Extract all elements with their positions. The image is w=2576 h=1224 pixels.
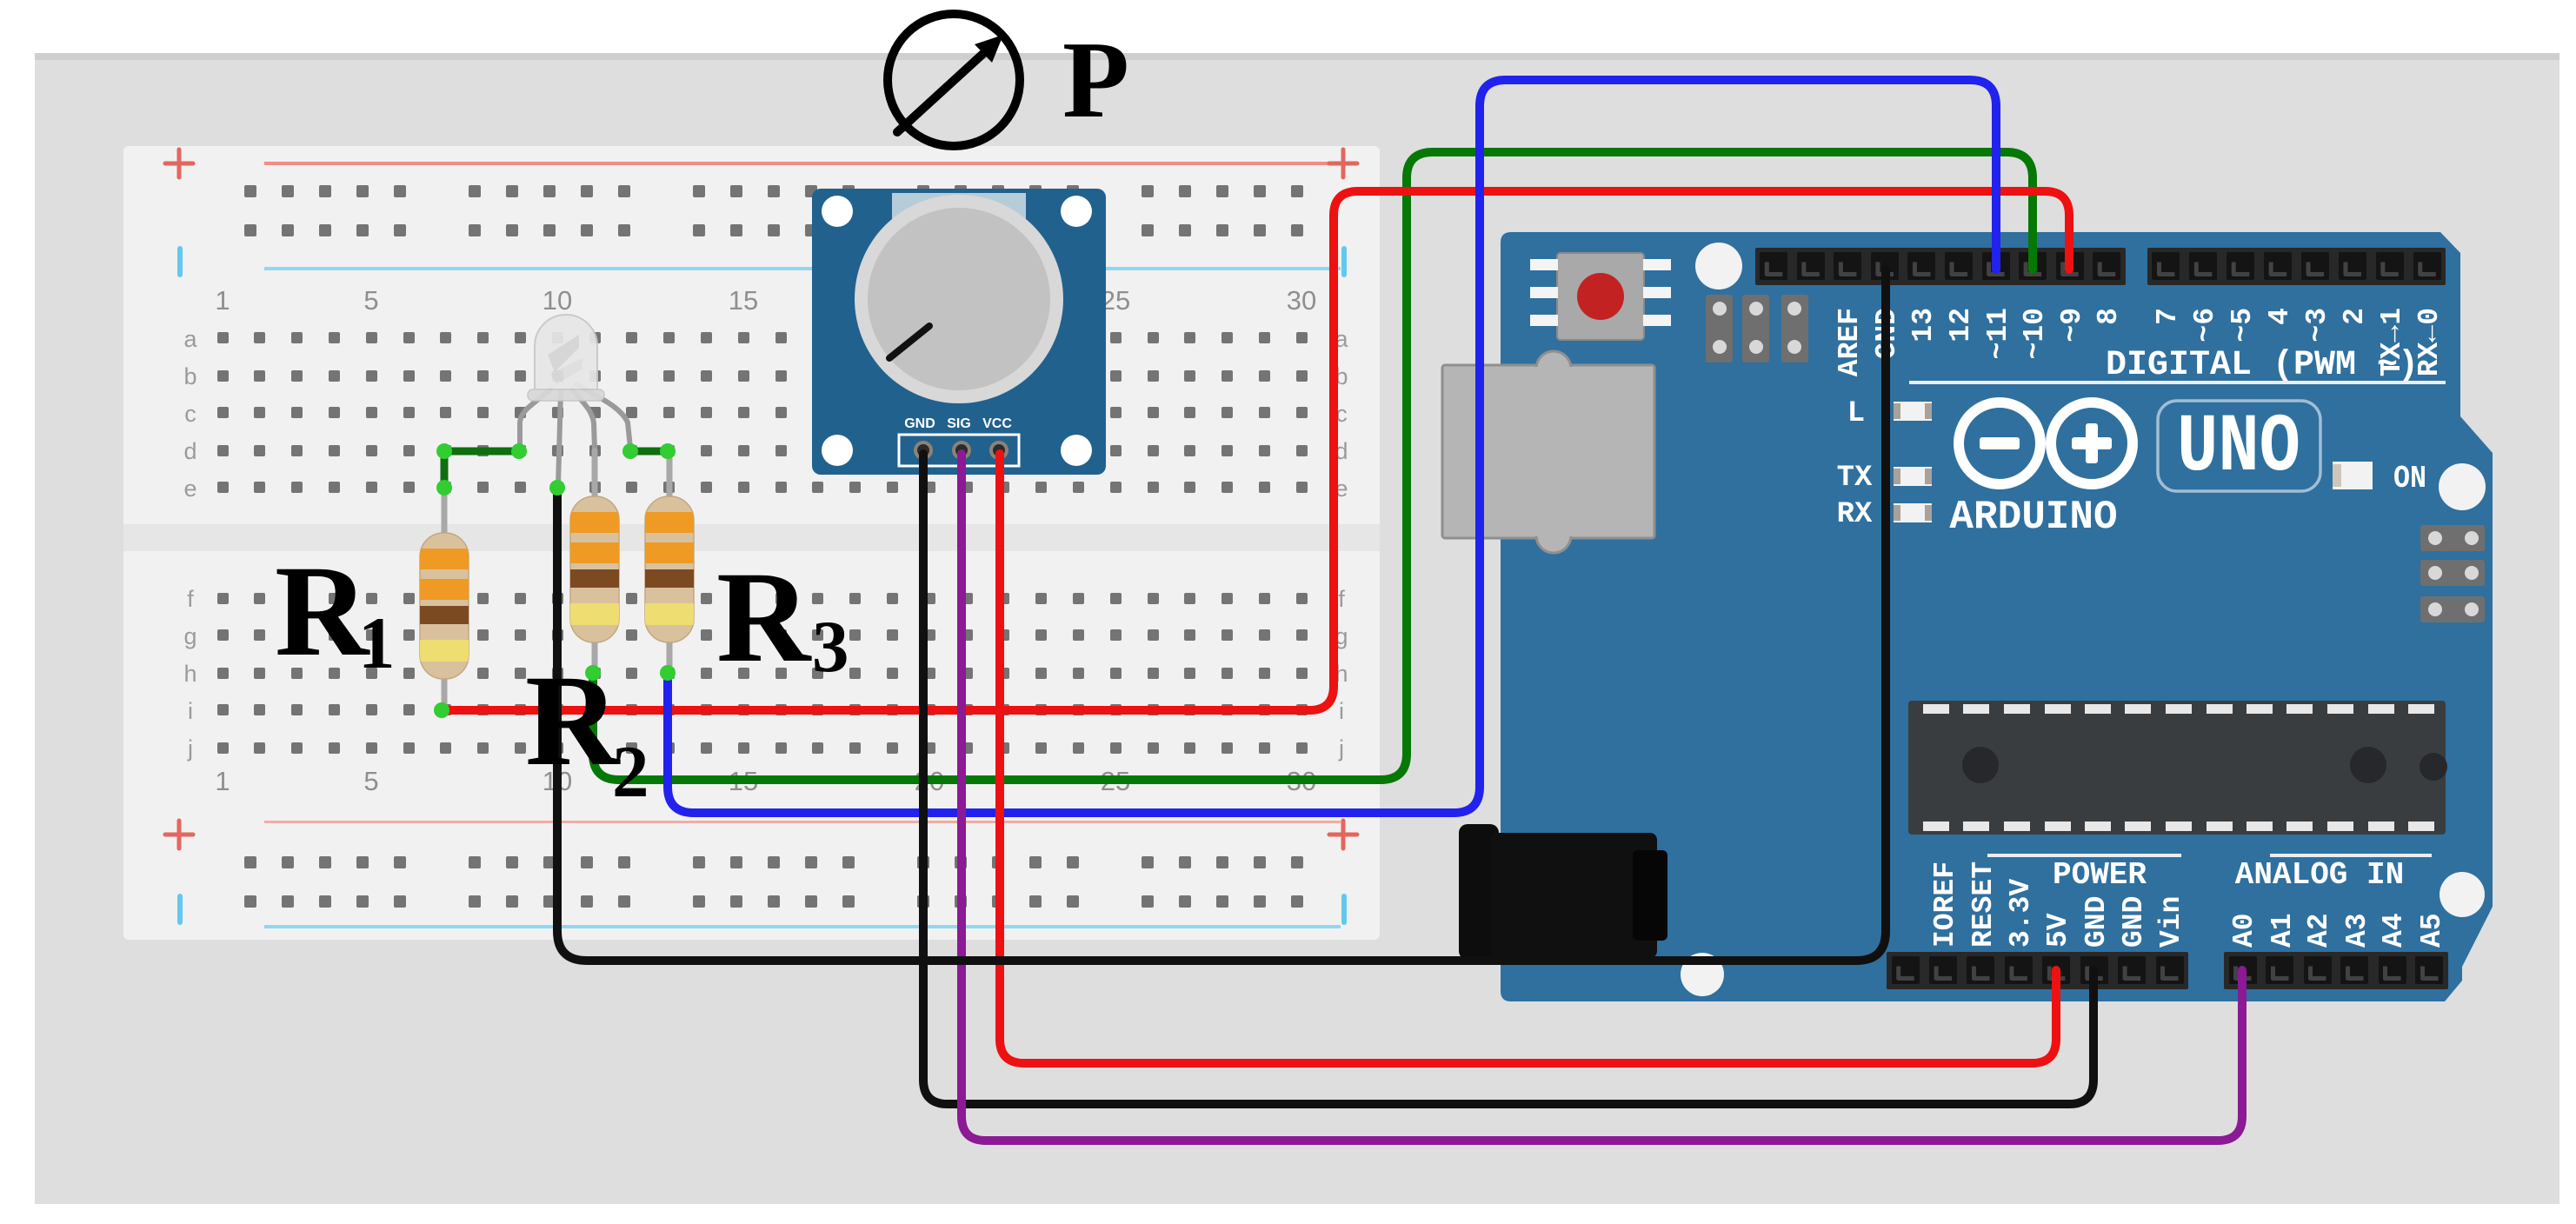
svg-text:R: R — [716, 545, 812, 689]
svg-text:DIGITAL (PWM ~): DIGITAL (PWM ~) — [2106, 346, 2419, 385]
svg-text:VCC: VCC — [982, 416, 1012, 431]
svg-text:A4: A4 — [2378, 913, 2410, 948]
svg-text:3: 3 — [812, 606, 849, 688]
svg-text:b: b — [183, 363, 196, 389]
svg-text:SIG: SIG — [947, 416, 971, 431]
svg-text:UNO: UNO — [2177, 401, 2300, 495]
svg-text:10: 10 — [542, 285, 572, 316]
svg-text:A2: A2 — [2303, 913, 2335, 948]
svg-text:7: 7 — [2152, 308, 2184, 325]
svg-text:2: 2 — [2339, 308, 2371, 325]
svg-text:A1: A1 — [2266, 913, 2299, 948]
svg-text:ARDUINO: ARDUINO — [1949, 495, 2117, 540]
svg-text:P: P — [1062, 20, 1129, 141]
svg-text:~6: ~6 — [2189, 308, 2221, 343]
svg-text:A3: A3 — [2341, 913, 2373, 948]
svg-text:ON: ON — [2393, 461, 2426, 496]
svg-text:GND: GND — [904, 416, 935, 431]
svg-text:30: 30 — [1287, 285, 1316, 316]
svg-text:RESET: RESET — [1967, 861, 2000, 948]
svg-text:AREF: AREF — [1834, 308, 1866, 376]
svg-text:GND: GND — [2118, 896, 2150, 948]
svg-text:a: a — [183, 326, 197, 352]
svg-text:~9: ~9 — [2056, 308, 2088, 343]
svg-text:~10: ~10 — [2019, 308, 2051, 359]
svg-text:4: 4 — [2264, 308, 2296, 325]
svg-text:R: R — [275, 539, 370, 683]
svg-text:TX: TX — [1837, 462, 1873, 495]
svg-text:L: L — [1847, 397, 1865, 430]
svg-text:c: c — [184, 401, 196, 427]
svg-text:13: 13 — [1907, 308, 1940, 343]
svg-text:h: h — [183, 661, 196, 687]
svg-text:POWER: POWER — [2053, 857, 2147, 893]
svg-text:5V: 5V — [2042, 913, 2074, 948]
svg-text:1: 1 — [215, 766, 230, 796]
svg-text:1: 1 — [215, 285, 230, 316]
svg-text:d: d — [183, 438, 196, 464]
svg-text:1: 1 — [358, 602, 396, 684]
svg-text:~3: ~3 — [2301, 308, 2333, 343]
svg-text:f: f — [187, 586, 194, 612]
svg-text:3.3V: 3.3V — [2005, 879, 2037, 948]
svg-text:i: i — [188, 698, 193, 724]
svg-text:GND: GND — [2080, 896, 2113, 948]
svg-text:j: j — [187, 735, 193, 762]
svg-text:j: j — [1338, 735, 1344, 762]
svg-text:2: 2 — [612, 731, 649, 813]
svg-text:12: 12 — [1945, 308, 1977, 343]
svg-text:5: 5 — [363, 285, 378, 316]
svg-text:A5: A5 — [2416, 913, 2448, 948]
svg-text:R: R — [525, 649, 621, 793]
svg-text:IOREF: IOREF — [1929, 861, 1961, 948]
svg-text:g: g — [183, 623, 196, 649]
svg-text:15: 15 — [729, 285, 758, 316]
svg-text:8: 8 — [2093, 308, 2125, 325]
svg-text:f: f — [1338, 586, 1345, 612]
svg-text:~5: ~5 — [2227, 308, 2259, 343]
svg-text:i: i — [1339, 698, 1344, 724]
svg-text:A0: A0 — [2228, 913, 2260, 948]
svg-text:5: 5 — [363, 766, 378, 796]
svg-text:~11: ~11 — [1982, 308, 2014, 359]
svg-text:RX: RX — [1837, 498, 1873, 531]
svg-text:e: e — [183, 476, 196, 502]
svg-text:ANALOG IN: ANALOG IN — [2235, 857, 2404, 893]
svg-text:Vin: Vin — [2155, 896, 2187, 948]
